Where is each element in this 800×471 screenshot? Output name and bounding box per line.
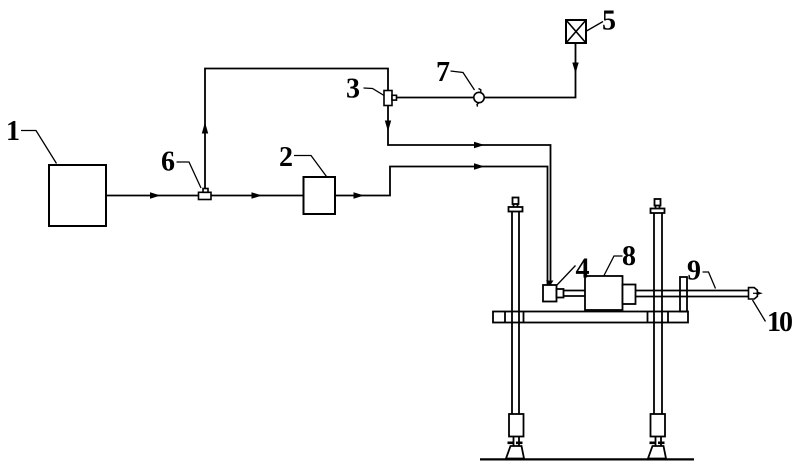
svg-text:6: 6 — [161, 147, 175, 178]
svg-text:5: 5 — [602, 6, 616, 37]
svg-text:2: 2 — [279, 142, 293, 173]
svg-text:3: 3 — [346, 74, 360, 105]
svg-text:1: 1 — [6, 116, 20, 147]
svg-text:10: 10 — [767, 307, 792, 338]
svg-text:7: 7 — [436, 57, 450, 88]
svg-text:9: 9 — [687, 256, 701, 287]
svg-text:8: 8 — [622, 241, 636, 272]
svg-text:4: 4 — [576, 254, 590, 285]
